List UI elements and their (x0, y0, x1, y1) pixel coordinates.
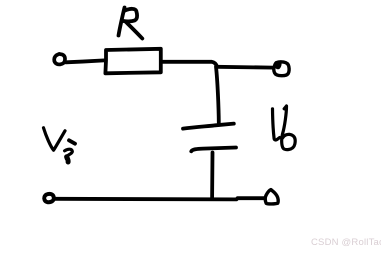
resistor value label R (119, 8, 143, 39)
terminal: input top (54, 54, 65, 65)
net label Vi (44, 128, 76, 162)
capacitor C top plate (183, 124, 234, 129)
capacitor C bottom plate (191, 148, 236, 152)
wire: node A down to capacitor (216, 67, 219, 123)
wire: capacitor to bottom rail (210, 153, 214, 199)
terminal: output top (274, 62, 289, 76)
net label Vo (273, 106, 296, 150)
wire: input terminal to resistor (66, 60, 105, 62)
wire: bottom rail (55, 198, 265, 199)
terminal: input bottom (44, 194, 54, 202)
resistor R (105, 49, 160, 74)
wire: node A to output terminal (217, 65, 274, 70)
wire: resistor to node A (161, 62, 217, 67)
terminal: output bottom (265, 190, 278, 204)
